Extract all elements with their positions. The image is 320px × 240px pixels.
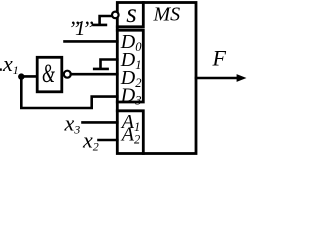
arrowhead of output F (237, 74, 247, 82)
NAND gate U2 box (37, 57, 62, 92)
svg-text:s: s (126, 0, 137, 28)
address sub-box A1 A2 (117, 111, 143, 154)
wire x1 branch to D3 (21, 77, 117, 108)
svg-text:MS: MS (153, 4, 181, 26)
inverter bubble on s input (112, 12, 119, 19)
svg-text:x3: x3 (64, 111, 81, 137)
constant-0 terminator on D1 input (94, 60, 117, 69)
select sub-box s (117, 3, 143, 27)
wire x1 to gate input (21, 75, 37, 78)
svg-text:F: F (212, 46, 227, 71)
svg-text:x2: x2 (82, 128, 99, 154)
node x1 junction (18, 73, 24, 79)
svg-text:x1: x1 (2, 51, 19, 77)
svg-text:”: ” (82, 16, 94, 41)
wire x2 to A2 (99, 139, 118, 142)
wire constant 1 to D0 (65, 40, 118, 43)
constant "1" label (68, 16, 94, 41)
inverter bubble on gate U2 output (64, 71, 71, 78)
output wire F (196, 77, 238, 80)
constant-0 terminator on s input (94, 16, 112, 25)
svg-text:&: & (42, 59, 55, 88)
multiplexer U1 outer box (117, 3, 196, 154)
data sub-box D0-D3 (117, 30, 143, 102)
stray dash at left edge (0, 68, 2, 70)
wire gate output to D2 (71, 73, 118, 76)
wire x3 to A1 (83, 121, 118, 124)
